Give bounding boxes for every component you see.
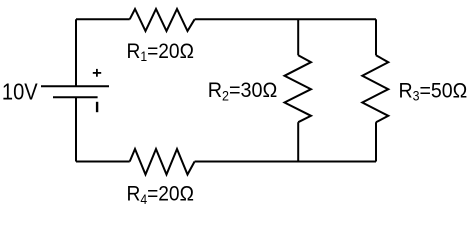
svg-text:R2=30Ω: R2=30Ω [208,79,278,104]
wire top-left horizontal segment [76,18,130,20]
wire right vertical lower (R3 to bottom wire) [375,122,377,161]
battery plus sign [93,69,101,77]
svg-text:R4=20Ω: R4=20Ω [127,183,194,207]
battery B1 bottom plate (negative) [53,96,98,98]
svg-text:R1=20Ω: R1=20Ω [127,40,194,64]
wire bottom-right horizontal segment [195,161,376,163]
wire top-right horizontal segment [195,18,376,20]
wire bottom-left horizontal segment [76,161,130,163]
wire left vertical lower (battery - to bottom wire) [75,97,77,161]
svg-text:R3=50Ω: R3=50Ω [399,79,468,104]
wire left vertical upper (battery + to top wire) [75,19,77,86]
svg-text:10V: 10V [2,78,38,105]
wire right vertical upper (top wire to R3) [375,19,377,55]
resistor R4 [130,149,195,175]
resistor R1 [130,9,195,31]
wire R2 top vertical stub [297,19,299,55]
battery B1 top plate (positive) [41,85,109,87]
resistor R3 [362,55,388,122]
battery minus sign [96,102,98,112]
wire R2 bottom vertical stub [297,122,299,161]
resistor R2 [285,55,312,122]
